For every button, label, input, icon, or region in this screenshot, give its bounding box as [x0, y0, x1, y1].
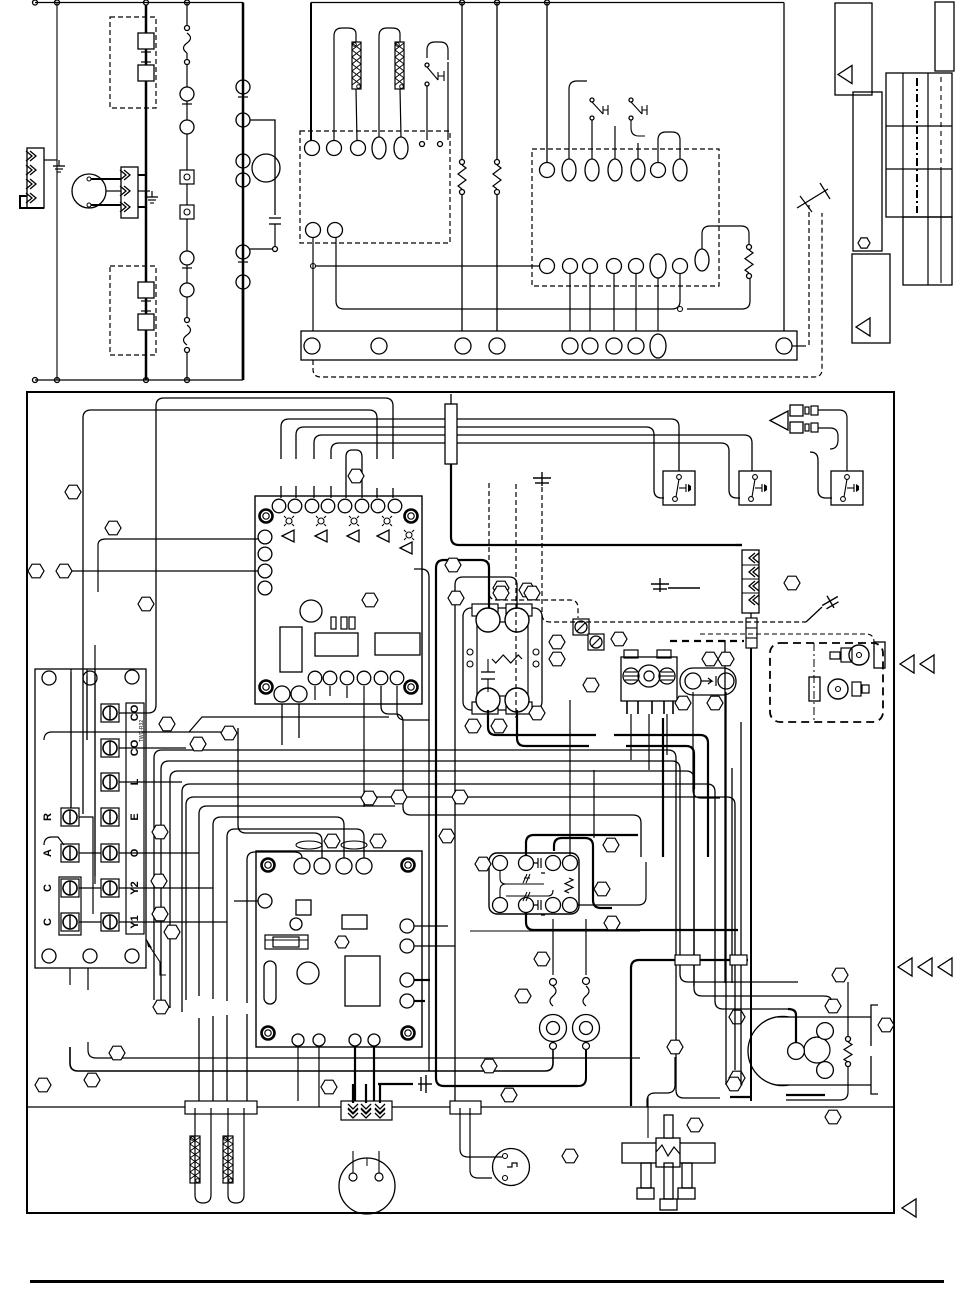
svg-text:C: C: [42, 918, 54, 926]
svg-text:C: C: [42, 884, 54, 892]
svg-text:TWC-R32: TWC-R32: [139, 720, 145, 742]
svg-text:E: E: [129, 813, 141, 820]
svg-text:A: A: [42, 849, 54, 857]
svg-text:R: R: [42, 813, 54, 821]
